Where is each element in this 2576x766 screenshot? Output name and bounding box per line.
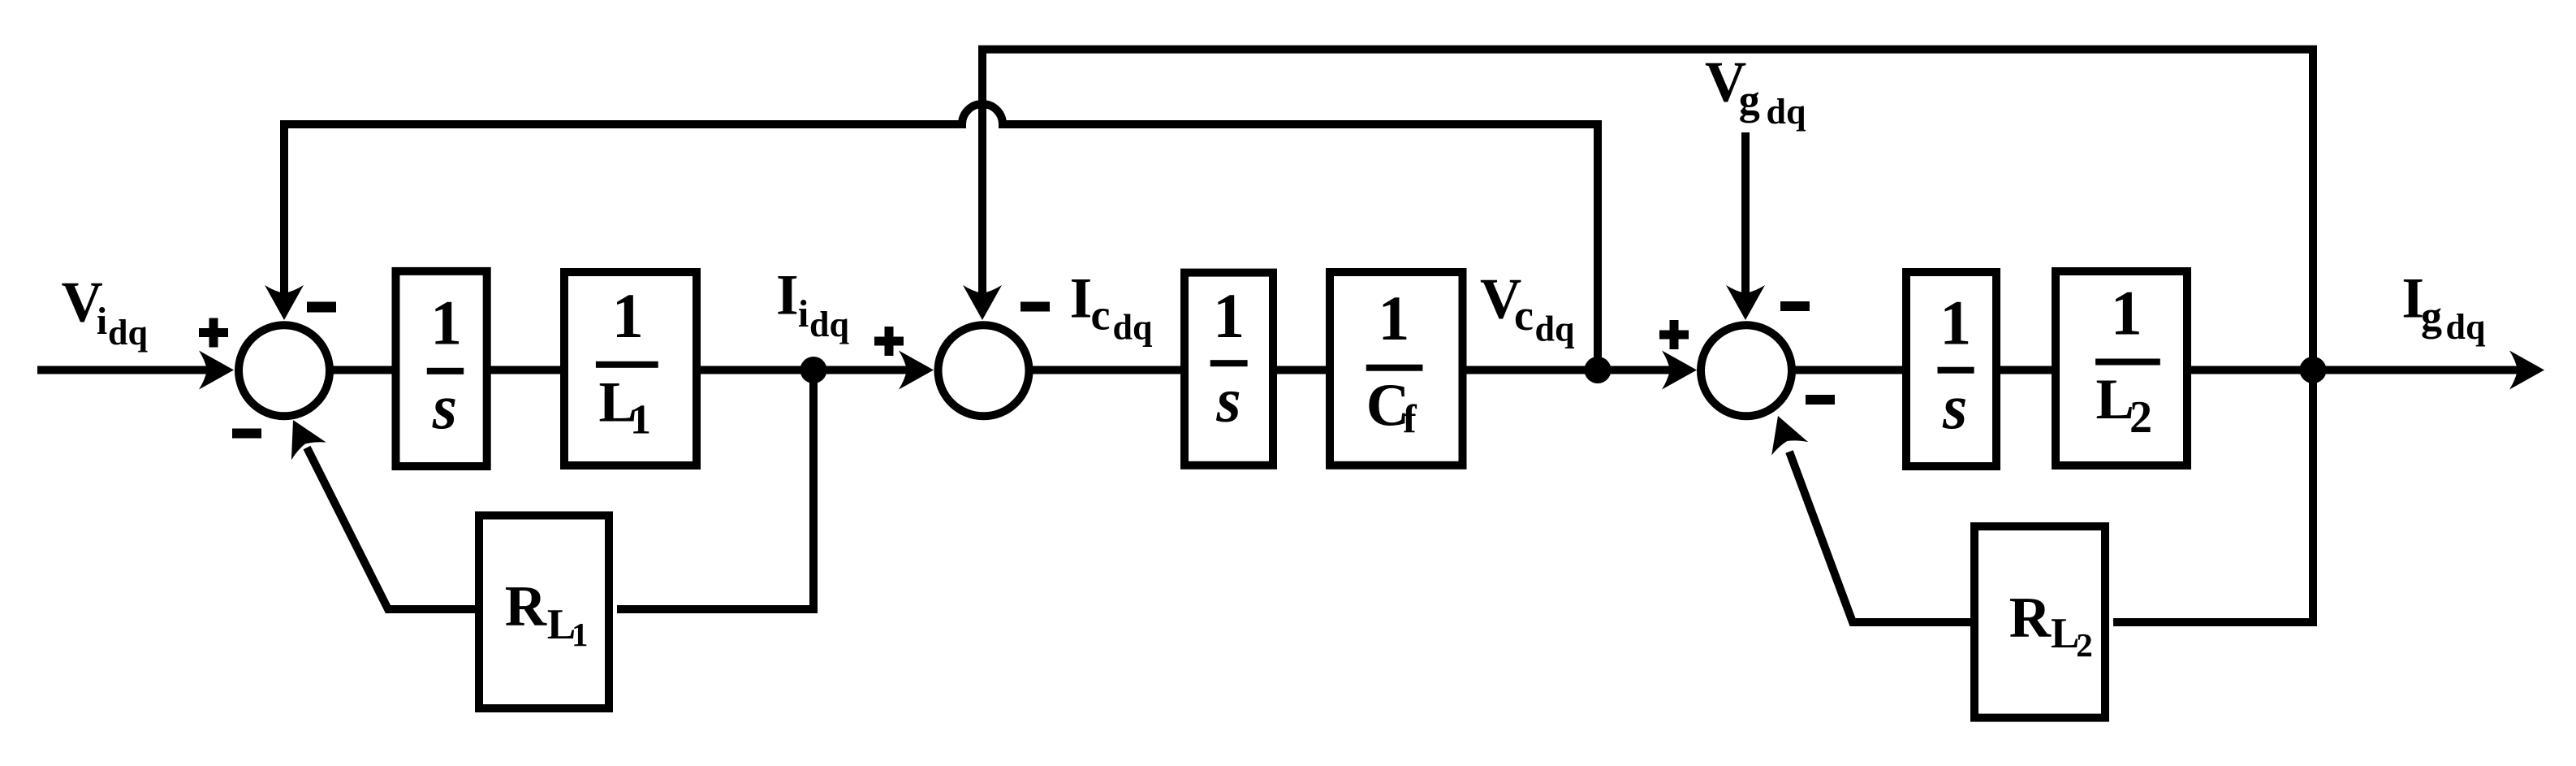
svg-text:dq: dq [809,305,849,344]
svg-text:g: g [1739,77,1760,123]
svg-text:i: i [798,292,809,335]
fraction bar block 1/s second [1210,360,1248,366]
block 1/s third [1906,272,1996,466]
svg-text:I: I [776,264,799,327]
svg-text:1: 1 [612,280,644,351]
wire 1/s to 1/Cf [1273,366,1330,374]
svg-text:s: s [432,371,457,442]
summing junction S1 [239,325,330,416]
svg-text:f: f [1403,396,1417,442]
wire RL2 branch: node Igdq down and to RL2 [1789,370,2313,622]
svg-text:R: R [2009,586,2052,649]
wire top feedback Igdq to S2 [978,45,2317,370]
node Iidq junction dot [800,357,827,383]
arrowhead into S1 from input [199,351,234,390]
plus sign at S2 input [874,337,904,346]
svg-text:g: g [2421,293,2442,340]
wire 1/s to 1/L2 [1996,366,2056,374]
wire 1/Cf to S3 through node Vcdq [1463,366,1672,374]
block 1/s second [1184,273,1273,465]
svg-text:1: 1 [572,616,589,653]
svg-text:2: 2 [2129,392,2152,443]
minus sign at S1 bottom [232,429,261,439]
plus sign at S3 input [1659,331,1689,340]
arrowhead into S1 from top (Vcdq feedback) [265,285,304,320]
minus sign at S3 lower right [1806,395,1835,405]
svg-text:1: 1 [1378,283,1409,353]
summing junction S2 [938,325,1029,416]
svg-text:i: i [97,300,107,343]
svg-text:dq: dq [1767,92,1806,132]
svg-text:dq: dq [1113,307,1153,347]
wire S1 to block 1/s [329,366,395,374]
summing junction S3 [1701,325,1792,416]
arrowhead into S3 from top (Vgdq) [1726,285,1765,320]
arrowhead into S2 from left [899,351,934,390]
wire S3 to 1/s [1792,366,1906,374]
svg-text:s: s [1215,365,1241,435]
fraction bar block 1/Cf [1366,365,1423,371]
wire Vgdq drop into S3 [1741,132,1750,296]
node Igdq junction dot [2300,357,2327,383]
wire 1/L1 to S2 through node Iidq [697,366,909,374]
svg-text:dq: dq [1535,309,1575,349]
arrowhead into S3 from left [1662,351,1697,390]
block RL2 [1974,526,2105,718]
arrowhead into S3 from RL2 diagonal [1759,409,1808,456]
fraction bar block 1/s third [1938,367,1974,374]
svg-text:dq: dq [2446,307,2486,347]
wire 1/s to 1/L1 [487,366,564,374]
svg-text:dq: dq [108,313,148,353]
block 1/L1 [564,272,697,465]
fraction bar block 1/L2 [2095,359,2160,366]
minus sign at S1 top [307,302,336,313]
svg-text:1: 1 [630,397,651,444]
arrowhead output Igdq [2509,351,2544,390]
minus sign at S2 top [1020,302,1050,312]
block 1/s first [396,271,487,466]
svg-text:1: 1 [1213,280,1245,351]
plus sign at S1 input [199,328,228,337]
block RL1 [479,516,609,709]
wire output Igdq [2187,366,2520,374]
arrowhead into S1 from RL1 diagonal [276,411,326,460]
svg-text:L: L [2096,368,2134,431]
minus sign at S3 top [1780,301,1810,311]
block 1/L2 [2056,271,2187,465]
wire S2 to 1/s [1029,366,1184,374]
wire input Vidq [37,366,209,374]
svg-text:1: 1 [2111,278,2142,348]
svg-text:I: I [1070,266,1093,330]
svg-text:2: 2 [2076,626,2093,664]
fraction bar block 1/s first [427,368,464,374]
node Vcdq junction dot [1585,357,1612,383]
svg-text:s: s [1942,371,1967,442]
wire RL1 branch: node Iidq down and to RL1 [307,370,813,609]
svg-text:1: 1 [1940,287,1971,357]
fraction bar block 1/L1 [596,361,658,368]
block 1/Cf [1330,272,1463,465]
svg-text:c: c [1091,291,1111,340]
arrowhead into S2 from top (Igdq feedback) [963,285,1002,320]
svg-text:R: R [505,575,547,638]
svg-text:c: c [1514,291,1534,340]
wire mid feedback Vcdq to S1 with hop [280,104,1598,370]
svg-text:1: 1 [430,287,462,357]
svg-text:L: L [2051,610,2079,657]
